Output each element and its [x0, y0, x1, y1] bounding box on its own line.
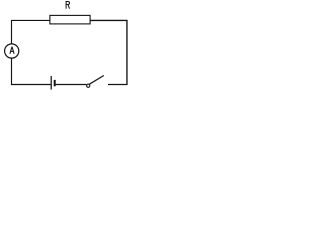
wire: switch right terminal, bottom-right corner, right side, top-right corner to resistor	[91, 20, 127, 84]
resistor R	[50, 15, 90, 24]
battery long plate (positive)	[50, 76, 52, 90]
switch pivot circle	[87, 84, 90, 87]
label A	[10, 47, 14, 54]
wire: left side and top-left segment to resistor	[12, 20, 50, 44]
ammeter A	[5, 44, 19, 58]
wire: left side below ammeter to bottom-left corner to battery	[12, 58, 52, 85]
wire: battery to switch pivot	[56, 84, 87, 86]
label R	[66, 1, 70, 9]
switch lever	[89, 76, 103, 85]
battery short thick plate (negative)	[54, 80, 56, 86]
